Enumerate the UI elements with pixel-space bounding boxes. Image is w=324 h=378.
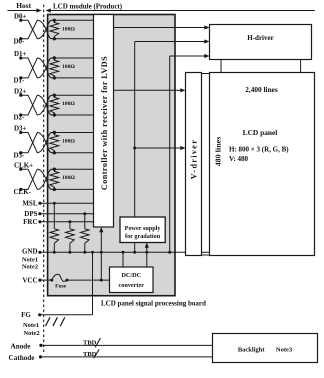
- svg-text:converter: converter: [119, 282, 145, 289]
- svg-text:D0+: D0+: [14, 12, 27, 20]
- svg-text:D3-: D3-: [14, 151, 26, 159]
- svg-text:VCC: VCC: [22, 277, 37, 285]
- svg-text:Note1: Note1: [22, 256, 38, 263]
- svg-text:V-driver: V-driver: [190, 139, 199, 179]
- svg-text:DPS: DPS: [24, 210, 37, 218]
- svg-text:480 lines: 480 lines: [213, 137, 222, 167]
- svg-text:Backlight: Backlight: [238, 347, 266, 354]
- svg-text:Note3: Note3: [276, 347, 293, 354]
- svg-text:D1+: D1+: [14, 50, 27, 58]
- svg-text:Note1: Note1: [23, 322, 39, 329]
- svg-text:CLK-: CLK-: [14, 188, 32, 196]
- svg-text:FG: FG: [21, 311, 31, 319]
- svg-text:Controller with receiver for L: Controller with receiver for LVDS: [100, 56, 109, 190]
- svg-text:for gradation: for gradation: [125, 233, 161, 240]
- svg-text:Host: Host: [16, 1, 31, 10]
- svg-text:2,400 lines: 2,400 lines: [245, 85, 278, 94]
- svg-text:Fuse: Fuse: [55, 284, 67, 290]
- svg-text:100Ω: 100Ω: [62, 64, 75, 70]
- svg-text:MSL: MSL: [22, 200, 38, 208]
- svg-text:D0-: D0-: [14, 37, 26, 45]
- svg-text:Note2: Note2: [22, 264, 38, 271]
- svg-text:V: 480: V: 480: [229, 155, 248, 163]
- svg-text:LCD panel: LCD panel: [243, 128, 278, 137]
- svg-text:LCD panel signal processing bo: LCD panel signal processing board: [101, 299, 206, 307]
- svg-text:H: 800 × 3 (R, G, B): H: 800 × 3 (R, G, B): [229, 146, 289, 154]
- svg-text:100Ω: 100Ω: [62, 26, 75, 32]
- svg-text:CLK+: CLK+: [14, 161, 33, 169]
- svg-text:Note2: Note2: [23, 330, 39, 337]
- svg-text:D1-: D1-: [14, 77, 26, 85]
- svg-text:Anode: Anode: [11, 342, 31, 350]
- svg-text:Cathode: Cathode: [9, 354, 35, 362]
- svg-text:100Ω: 100Ω: [62, 139, 75, 145]
- svg-text:100Ω: 100Ω: [62, 175, 75, 181]
- svg-text:D2+: D2+: [14, 87, 27, 95]
- svg-text:Power supply: Power supply: [125, 225, 162, 232]
- svg-text:100Ω: 100Ω: [62, 101, 75, 107]
- svg-text:TBD: TBD: [83, 351, 97, 358]
- svg-text:TBD: TBD: [83, 340, 97, 347]
- svg-text:FRC: FRC: [23, 218, 37, 226]
- svg-text:LCD module (Product): LCD module (Product): [53, 3, 123, 11]
- svg-text:H-driver: H-driver: [247, 34, 273, 42]
- svg-text:GND: GND: [22, 247, 38, 255]
- svg-text:DC/DC: DC/DC: [121, 272, 141, 279]
- svg-text:D3+: D3+: [14, 125, 27, 133]
- svg-text:D2-: D2-: [14, 114, 26, 122]
